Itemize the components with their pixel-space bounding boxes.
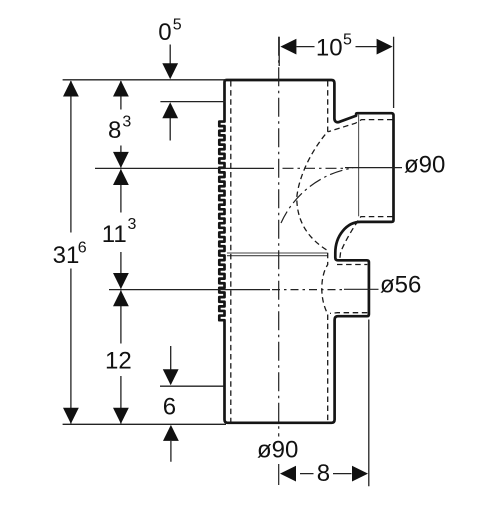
- extension top line: [63, 79, 226, 81]
- arrow 316 top: [63, 81, 79, 97]
- arrow 113 top: [113, 169, 129, 185]
- svg-text:3: 3: [122, 114, 131, 131]
- svg-text:10: 10: [316, 35, 343, 62]
- dim 105 line: [297, 46, 377, 48]
- dim 105 ticks: [279, 37, 393, 108]
- arrow 6 down: [163, 369, 179, 385]
- socket90 depth line: [358, 114, 360, 216]
- centerline segment below label: [278, 464, 280, 485]
- svg-text:31: 31: [53, 242, 80, 269]
- svg-text:5: 5: [173, 17, 182, 34]
- insertion depth line 05: [160, 101, 225, 103]
- arrows: [63, 39, 393, 482]
- dim 8 line: [300, 473, 352, 475]
- extension bottom line: [63, 423, 226, 425]
- arrow 113 bottom: [113, 273, 129, 289]
- dim 83 113 12 line: [120, 81, 122, 424]
- socket90 bottom inner dashed: [340, 217, 393, 259]
- svg-text:6: 6: [163, 393, 176, 420]
- dim 8 right extension: [368, 320, 370, 487]
- vertical centerline: [278, 37, 280, 437]
- arrow 05 up: [162, 102, 178, 118]
- svg-text:5: 5: [343, 32, 352, 49]
- svg-text:12: 12: [105, 347, 132, 374]
- svg-text:6: 6: [78, 240, 87, 257]
- joint seam double line: [227, 253, 328, 256]
- socket90 top inner dashed: [328, 120, 392, 132]
- branch56 centerline: [109, 289, 270, 291]
- svg-text:ø90: ø90: [404, 152, 445, 179]
- svg-text:8: 8: [317, 460, 330, 487]
- arrow 6 up: [163, 425, 179, 441]
- inner wall left dashed: [230, 81, 232, 422]
- bend90 centerline arc: [281, 168, 353, 223]
- arrow 12 top: [113, 290, 129, 306]
- pipe fitting outline: [219, 80, 393, 423]
- arrow 8 right: [352, 466, 368, 482]
- arrow 316 bottom: [63, 408, 79, 424]
- socket56 bottom inner dashed: [330, 312, 367, 315]
- svg-text:3: 3: [128, 216, 137, 233]
- dim 316 line: [70, 81, 72, 424]
- svg-text:11: 11: [102, 221, 127, 248]
- svg-text:0: 0: [158, 19, 171, 46]
- socket56 top inner dashed: [337, 264, 367, 266]
- extension line 6: [160, 385, 224, 387]
- inner wall right dashed with bore arcs: [297, 81, 328, 422]
- svg-text:ø56: ø56: [380, 272, 421, 299]
- dim 6 stems: [170, 346, 172, 462]
- dim 05 stems: [169, 45, 171, 141]
- svg-text:8: 8: [108, 117, 121, 144]
- arrow 83 bottom: [113, 152, 129, 168]
- arrow 05 down: [162, 63, 178, 79]
- arrow 8 left: [280, 466, 296, 482]
- arrow 83 top: [113, 81, 129, 97]
- arrow 12 bottom: [113, 408, 129, 424]
- branch90 centerline: [95, 167, 274, 169]
- arrow 105 left: [280, 39, 296, 55]
- arrow 105 right: [377, 39, 393, 55]
- svg-text:ø90: ø90: [257, 437, 298, 464]
